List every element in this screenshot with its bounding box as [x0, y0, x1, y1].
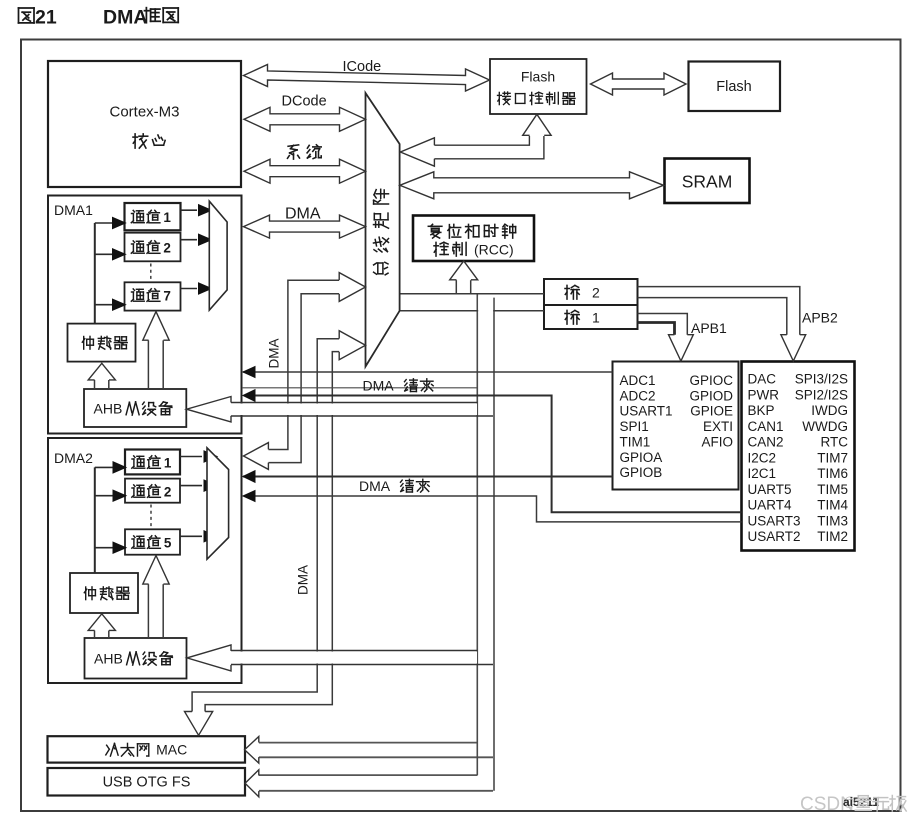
box APB1 peripherals	[613, 362, 739, 490]
svg-text:2: 2	[592, 285, 600, 301]
wire RCC arrow stem right	[470, 280, 472, 294]
svg-text:DMA: DMA	[103, 7, 147, 29]
wire DMA2 channel feed stub	[95, 547, 113, 549]
wire DMA1 channel to funnel	[181, 209, 198, 211]
arrow into DMA1 channel box	[113, 299, 126, 310]
wire DMA1 channel feed stub	[95, 304, 113, 306]
svg-text:ICode: ICode	[343, 59, 382, 75]
arrow DMA2 channel into funnel	[204, 531, 217, 542]
bus channel white break over bridge lines	[478, 296, 493, 312]
wire bridge2 to APB2 outer	[638, 287, 800, 336]
bus matrix-MAC DMA inner line	[192, 339, 339, 712]
box Flash	[689, 62, 781, 112]
label DMA1 channel1	[131, 210, 144, 222]
svg-text:I2C2: I2C2	[748, 450, 777, 465]
svg-text:IWDG: IWDG	[811, 403, 848, 418]
arrow DMA1 channel into funnel	[199, 205, 212, 216]
svg-text:2: 2	[163, 241, 171, 256]
svg-text:GPIOA: GPIOA	[620, 450, 663, 465]
svg-text:DAC: DAC	[748, 372, 777, 387]
bus to-USB body fill	[259, 776, 475, 790]
svg-text:DMA: DMA	[296, 565, 311, 595]
arrow DMA request into DMA2 lower	[243, 491, 255, 502]
svg-text:Flash: Flash	[521, 69, 555, 85]
label Ethernet MAC	[106, 743, 118, 756]
arrowhead DMA2 AHB to arbiter	[88, 614, 115, 631]
wire DMA2 AHB-arbiter arrow stem L	[94, 630, 96, 638]
svg-text:(RCC): (RCC)	[474, 242, 514, 258]
svg-text:EXTI: EXTI	[703, 419, 733, 434]
svg-text:PWR: PWR	[748, 387, 780, 402]
DMA2 mux funnel	[207, 448, 229, 559]
svg-text:USART3: USART3	[748, 513, 801, 528]
svg-text:CAN1: CAN1	[748, 419, 784, 434]
box DMA1 arbiter	[68, 324, 136, 362]
wire DMA1 AHB-channels arrow stem L	[147, 340, 149, 389]
bus matrix-MAC DMA outer line	[205, 352, 339, 712]
arrowhead into matrix from DMA2 bus	[339, 273, 365, 302]
box Cortex-M3 core	[48, 61, 241, 187]
wire matrix to bridge1	[399, 310, 545, 312]
label DMA1 channel7	[131, 289, 144, 301]
label DMA1 channel2	[131, 241, 144, 253]
svg-text:WWDG: WWDG	[802, 419, 848, 434]
svg-text:APB1: APB1	[691, 320, 727, 336]
arrow into DMA2 channel box	[113, 490, 126, 501]
svg-text:DMA2: DMA2	[54, 450, 93, 466]
arrow DMA1 channel into funnel	[199, 283, 212, 294]
wire DMA1 aux line y388	[242, 387, 478, 389]
wire DMA2 arbiter riser	[94, 467, 96, 573]
arrowhead into USB OTG FS right	[245, 770, 259, 797]
svg-text:BKP: BKP	[748, 403, 775, 418]
box RCC reset and clock control	[413, 216, 534, 262]
label interface controller	[498, 92, 511, 105]
arrowhead up into flash interface	[523, 114, 551, 135]
arrow DMA request into DMA1 lower	[243, 390, 255, 402]
svg-text:ADC2: ADC2	[620, 388, 656, 403]
box DMA2	[48, 438, 242, 683]
svg-text:SPI3/I2S: SPI3/I2S	[795, 372, 848, 387]
svg-text:RTC: RTC	[820, 435, 848, 450]
title figure 21	[19, 8, 35, 23]
svg-text:DMA: DMA	[359, 478, 391, 494]
wire AHB2 body top	[231, 650, 478, 652]
wire AHB1 body top	[231, 402, 478, 404]
box DMA1 channel2	[125, 233, 181, 262]
label DMA1 arbiter	[82, 336, 93, 349]
svg-text:7: 7	[163, 289, 171, 304]
dotted line DMA1 channels	[150, 264, 152, 280]
wire DMA1 channel to funnel	[181, 288, 198, 290]
svg-text:1: 1	[164, 456, 172, 471]
arrowhead into matrix from flash itf bus	[400, 138, 434, 166]
box DMA2 channel1	[125, 450, 180, 475]
svg-text:APB2: APB2	[802, 310, 838, 326]
svg-text:5: 5	[164, 536, 172, 551]
svg-text:SPI2/I2S: SPI2/I2S	[795, 387, 848, 402]
svg-text:AFIO: AFIO	[701, 434, 733, 449]
bus AHB-to-MAC body fill	[259, 744, 475, 757]
wire bridge1 to APB1 outer thick	[638, 323, 675, 337]
wire AHB2 body bottom	[231, 664, 493, 666]
svg-text:1: 1	[163, 210, 171, 225]
bus matrix shape	[366, 93, 400, 367]
svg-text:USART1: USART1	[620, 404, 673, 419]
arrowhead DMA2 AHB to channels	[143, 556, 169, 585]
wire DMA2 AHB-channels arrow stem L	[147, 584, 149, 638]
svg-text:TIM5: TIM5	[817, 482, 848, 497]
svg-text:TIM6: TIM6	[817, 466, 848, 481]
wire MAC body bottom	[259, 756, 493, 758]
wire DMA2 channel to funnel	[180, 535, 202, 537]
box DMA2 channel2	[125, 479, 180, 503]
wire DMA1 AHB-arbiter arrow stem L	[94, 380, 96, 389]
arrow matrix-SRAM	[400, 172, 664, 199]
wire DMA2 AHB-channels arrow stem R	[162, 584, 164, 638]
wire DMA1 AHB-arbiter arrow stem R	[108, 380, 110, 389]
arrow DMA request into DMA2 upper	[243, 471, 255, 483]
wire DMA1 channel to funnel	[181, 239, 198, 241]
wire DMA1 arbiter riser	[94, 223, 96, 324]
wire DMA1 AHB-channels arrow stem R	[162, 340, 164, 389]
svg-text:TIM7: TIM7	[817, 450, 848, 465]
bus AHB2 body fill	[231, 652, 477, 664]
wire USB body bottom	[259, 790, 493, 792]
dotted line DMA2 channels	[150, 505, 152, 528]
box DMA2 AHB slave	[85, 638, 187, 679]
svg-text:21: 21	[35, 7, 57, 29]
svg-text:DCode: DCode	[282, 94, 327, 110]
svg-text:SRAM: SRAM	[682, 172, 733, 192]
wire RCC arrow stem left	[455, 280, 457, 294]
svg-text:I2C1: I2C1	[748, 466, 777, 481]
bus matrix to flash interface L-path	[434, 136, 529, 145]
wire DMA2 AHB-arbiter arrow stem R	[108, 630, 110, 638]
wire V1 vertical x477 bridges-to-USB	[476, 294, 478, 775]
wire DMA1 channel feed stub	[95, 222, 113, 224]
arrow FlashItf-Flash	[591, 73, 687, 95]
svg-text:DMA: DMA	[363, 378, 395, 394]
arrow DMA2 channel into funnel	[204, 480, 217, 491]
wire bridge1 to APB1 inner	[638, 314, 688, 337]
box SRAM	[665, 159, 750, 204]
svg-text:UART4: UART4	[748, 498, 793, 513]
svg-text:TIM2: TIM2	[817, 529, 848, 544]
svg-text:TIM1: TIM1	[620, 434, 651, 449]
arrow DMA1 channel into funnel	[199, 234, 212, 245]
wire DMA1 channel feed stub	[95, 253, 113, 255]
wire DMA request1 upper to APB1 box	[243, 371, 613, 373]
box DMA2 arbiter	[70, 573, 138, 613]
svg-text:USART2: USART2	[748, 529, 801, 544]
arrowhead DMA1 AHB to arbiter	[88, 363, 115, 380]
arrow DCode Cortex-matrix	[244, 107, 366, 131]
svg-text:TIM4: TIM4	[817, 498, 848, 513]
arrow System Cortex-matrix	[244, 159, 366, 183]
wire DMA2 channel feed stub	[95, 495, 113, 497]
svg-text:GPIOE: GPIOE	[690, 404, 733, 419]
DMA1 mux funnel	[209, 201, 227, 310]
arrowhead APB2 down into APB2 peripherals	[781, 335, 806, 361]
svg-text:SPI1: SPI1	[620, 419, 649, 434]
arrowhead into DMA2 AHB slave	[187, 645, 231, 671]
arrow into DMA1 channel box	[113, 249, 126, 260]
svg-text:ADC1: ADC1	[620, 373, 656, 388]
bus AHB1 body fill	[231, 404, 477, 416]
arrow into DMA2 channel box	[113, 462, 126, 473]
arrow DMA request into DMA1 upper	[243, 367, 255, 378]
arrow ICode Cortex-FlashItf	[244, 65, 490, 92]
svg-text:Flash: Flash	[716, 79, 751, 95]
arrowhead into DMA2 from matrix bus	[244, 443, 269, 470]
label DMA2 channel5	[132, 536, 145, 548]
svg-text:DMA1: DMA1	[54, 202, 93, 218]
wire MAC body top	[259, 742, 478, 744]
label control (RCC)	[434, 242, 448, 256]
svg-text:2: 2	[164, 485, 172, 500]
svg-text:GPIOD: GPIOD	[689, 388, 733, 403]
label system	[288, 145, 300, 159]
box DMA1 channel7	[125, 282, 181, 310]
label total bus matrix (rotated)	[374, 189, 389, 204]
arrowhead up into RCC	[450, 261, 478, 280]
svg-text:AHB: AHB	[94, 651, 123, 667]
box DMA1 channel1	[125, 203, 181, 230]
label DMA2 arbiter	[84, 587, 95, 600]
bus matrix-DMA2 outer line	[268, 294, 339, 463]
wire DMA request1 lower to APB2 box	[254, 396, 742, 513]
wire matrix to bridge2	[400, 293, 544, 295]
box USB OTG FS	[48, 768, 246, 796]
label core	[133, 134, 148, 148]
svg-text:1: 1	[592, 310, 600, 326]
svg-text:Cortex-M3: Cortex-M3	[109, 104, 179, 121]
arrowhead APB1 down into APB1 peripherals	[669, 335, 694, 361]
label DMA2 channel1	[132, 456, 145, 468]
box DMA1	[48, 196, 242, 434]
wire DMA2 channel feed stub	[95, 466, 113, 468]
arrow DMA2 channel into funnel	[204, 451, 217, 462]
svg-text:TIM3: TIM3	[817, 513, 848, 528]
label DMA2 channel2	[132, 485, 145, 497]
box APB2 peripherals	[742, 362, 855, 551]
svg-text:UART5: UART5	[748, 482, 792, 497]
wire V2 vertical x494 bridges-to-USB	[493, 298, 495, 791]
box bridge1	[544, 305, 638, 329]
wire DMA2 channel to funnel	[180, 456, 202, 458]
arrow into DMA1 channel box	[113, 217, 126, 228]
box Flash interface controller	[490, 59, 587, 114]
wire DMA2 channel to funnel	[180, 485, 202, 487]
box DMA1 AHB slave	[84, 389, 186, 427]
svg-text:MAC: MAC	[156, 742, 187, 758]
svg-text:GPIOC: GPIOC	[689, 373, 733, 388]
box Ethernet MAC	[48, 736, 246, 762]
box bridge2	[544, 279, 638, 305]
arrow into DMA2 channel box	[113, 542, 126, 553]
arrowhead DMA1 AHB to channels	[143, 312, 169, 341]
svg-text:USB OTG FS: USB OTG FS	[103, 775, 191, 791]
label bridge 1	[565, 310, 579, 324]
arrowhead into DMA1 AHB slave	[187, 397, 232, 422]
arrowhead down into Ethernet MAC	[185, 712, 213, 736]
arrow DMA1 DMA-matrix	[244, 215, 366, 238]
svg-text:DMA: DMA	[267, 339, 282, 369]
bus matrix-DMA2 inner line	[268, 280, 339, 449]
svg-text:DMA: DMA	[285, 206, 321, 223]
wire USB body top	[259, 774, 478, 776]
wire AHB1 body bottom	[231, 415, 493, 417]
svg-text:CAN2: CAN2	[748, 435, 784, 450]
svg-text:GPIOB: GPIOB	[620, 465, 663, 480]
label bridge 2	[565, 285, 579, 299]
arrowhead into matrix from DMA bus	[339, 331, 365, 360]
wire DMA request2 lower to APB2 box	[254, 496, 742, 522]
arrowhead into Ethernet MAC right	[245, 737, 259, 764]
svg-text:AHB: AHB	[94, 401, 123, 417]
wire DMA request2 upper to APB1 box	[243, 476, 613, 478]
label reset and clock	[428, 224, 442, 238]
wire bridge2 to APB2 inner	[638, 298, 787, 336]
box DMA2 channel5	[125, 529, 180, 554]
